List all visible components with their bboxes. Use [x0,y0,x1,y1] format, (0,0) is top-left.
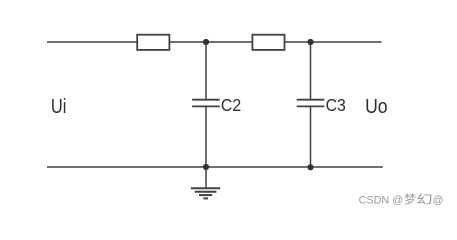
wire top rail input segment [47,41,137,43]
capacitor C3 [297,100,325,107]
wire bottom rail [47,166,383,168]
node junction R2-C3 [307,39,313,45]
node junction C2-ground on bottom rail [203,164,209,170]
svg-text:CSDN @: CSDN @ [359,195,404,207]
wire C2 bottom lead [205,106,207,167]
wire top rail R1 to R2 [169,41,252,43]
node junction R1-C2 [203,39,209,45]
wire C3 top lead [310,42,312,100]
ground [191,167,220,198]
svg-text:C2: C2 [221,95,241,115]
svg-text:Ui: Ui [51,95,66,118]
svg-text:@: @ [433,195,444,207]
resistor R1 [137,35,169,50]
resistor R2 [252,35,284,50]
watermark CSDN [359,193,444,206]
wire C2 top lead [205,42,207,100]
node junction C3 on bottom rail [307,164,313,170]
svg-text:C3: C3 [326,95,346,115]
wire top rail output segment [285,41,382,43]
svg-text:Uo: Uo [365,95,387,117]
wire C3 bottom lead [310,106,312,167]
capacitor C2 [192,100,220,107]
